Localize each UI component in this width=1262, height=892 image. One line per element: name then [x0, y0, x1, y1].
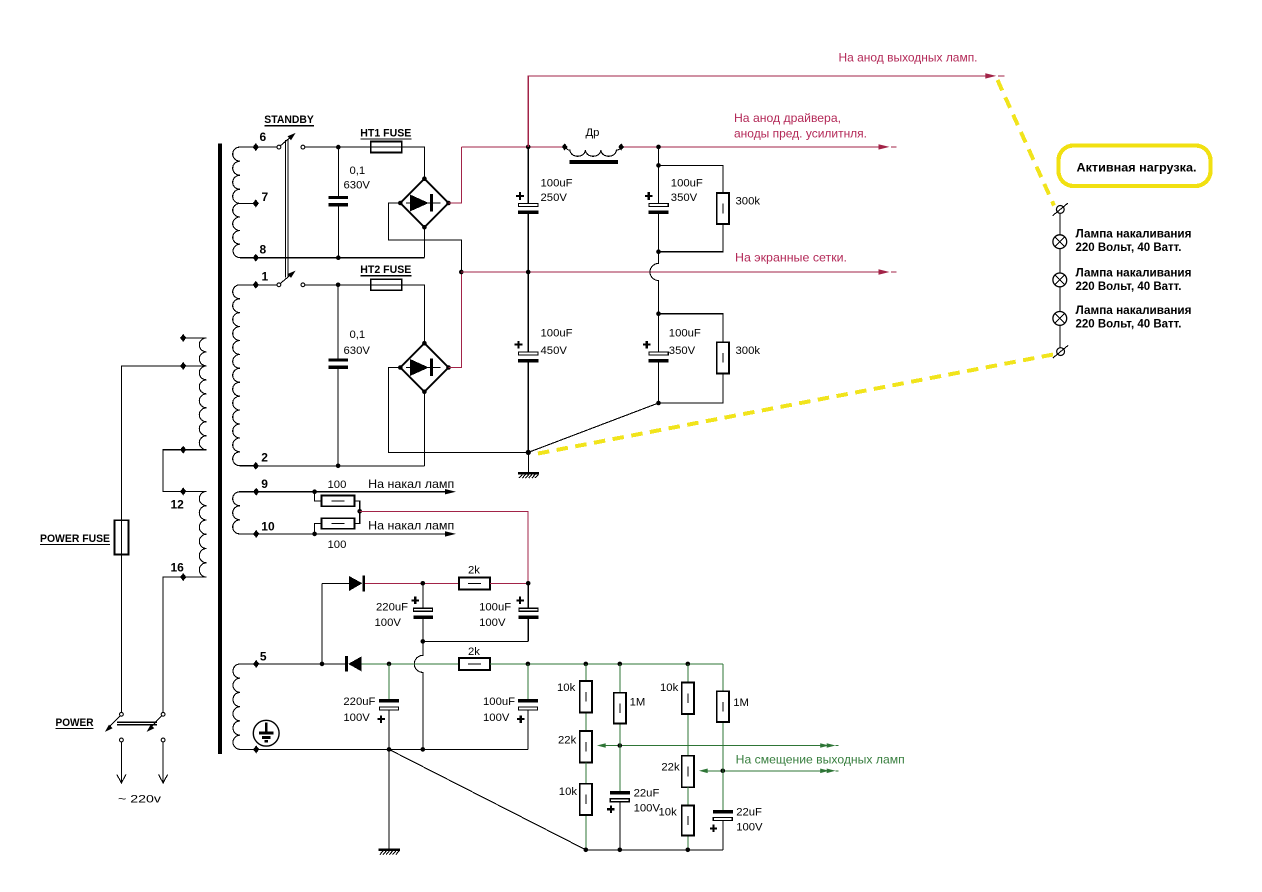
node: tap 7 — [253, 199, 259, 207]
capacitor C1 0,1 630V plates — [329, 196, 349, 207]
arrow green: bias output 1 (double) — [820, 743, 838, 748]
node: rail junction minus riser — [421, 747, 426, 752]
svg-text:На смещение выходных ламп: На смещение выходных ламп — [736, 752, 905, 766]
wire: HT2 fuse to bridge 2 input — [402, 285, 425, 343]
label C7 100V — [375, 617, 402, 629]
capacitor C6 100uF 350V plates — [649, 352, 669, 362]
bridge rectifier B2 diamond — [400, 343, 448, 392]
wire red: heater junction to bias rail — [360, 511, 528, 583]
node: bridge B2 bottom vertex — [422, 390, 427, 395]
resistor R7 10k body — [580, 681, 592, 712]
label R9 10k — [559, 786, 578, 798]
label R11 10k — [660, 682, 679, 694]
label: na anod vyhodnych lamp — [839, 51, 978, 65]
svg-text:Др: Др — [586, 127, 600, 139]
node: junction 220uF-1 top — [421, 581, 426, 586]
node: tap 9 — [253, 488, 259, 496]
label C5 450V — [541, 345, 568, 357]
yellow dashed link 1 — [998, 80, 1055, 206]
ground symbol 1 — [518, 452, 539, 478]
label ~220v — [118, 794, 161, 806]
primary winding P2 (taps 12/16) — [183, 491, 206, 577]
svg-text:100uF: 100uF — [541, 178, 573, 190]
node: tap 8 — [253, 254, 259, 262]
label H2 line 1 — [1076, 265, 1192, 279]
arrow: heater line 10 — [445, 531, 456, 536]
svg-text:630V: 630V — [344, 179, 371, 191]
label: aktivnaya nagruzka — [1077, 161, 1197, 175]
node: bridge B2 left vertex — [398, 365, 403, 370]
svg-text:220uF: 220uF — [343, 696, 375, 708]
wire green: wiper line 2 — [707, 770, 827, 772]
capacitor C11 22uF 100V plates (reversed) — [610, 791, 630, 802]
heater winding S3 (taps 9/10) — [233, 492, 257, 534]
node: primary top stub tap — [180, 334, 186, 342]
label POWER — [56, 717, 94, 729]
resistor R9 10k leads — [585, 762, 587, 850]
wire: tap6 to standby contact — [256, 146, 277, 148]
C6 plus sign — [643, 341, 651, 349]
node: screen rail / filter1 junction — [526, 270, 531, 275]
svg-text:7: 7 — [262, 190, 269, 204]
svg-text:100uF: 100uF — [541, 328, 573, 340]
node: primary tap (winding 1 bottom) — [180, 446, 186, 454]
callout box: active load — [1059, 146, 1211, 187]
node: choke right terminal — [618, 143, 624, 150]
label: anody pred usilitnlya — [734, 127, 867, 141]
label C8 100V — [479, 617, 506, 629]
capacitor C10 100uF 100V plates (reversed) — [518, 699, 538, 710]
wire red: choke to driver anode arrow — [624, 146, 881, 148]
resistor R11 10k body — [682, 683, 694, 714]
heater winding S4 (tap 5) — [233, 664, 256, 750]
label 2 — [261, 451, 268, 465]
svg-text:На накал ламп: На накал ламп — [368, 519, 454, 533]
svg-text:Лампа накаливания: Лампа накаливания — [1076, 265, 1192, 279]
fuse HT2 — [371, 279, 402, 290]
wire: jumper between primary sections — [163, 450, 183, 492]
svg-text:На анод выходных ламп.: На анод выходных ламп. — [839, 51, 978, 65]
wire: tap9 heater line — [256, 491, 445, 493]
label C5 100uF — [541, 328, 573, 340]
switch: STANDBY pole 2 — [277, 271, 305, 287]
svg-text:5: 5 — [260, 650, 267, 664]
C7 plus sign — [412, 597, 419, 604]
label C10 100V — [483, 712, 510, 724]
capacitor C8 100uF 100V wires — [527, 583, 529, 641]
capacitor C9 220uF 100V plates (reversed) — [379, 699, 399, 710]
potentiometer R8 22k body — [580, 731, 592, 762]
wire red: 2k to junction — [490, 582, 528, 584]
resistor R2 300k body — [717, 342, 729, 373]
lamp H1 220V 40W — [1053, 235, 1067, 249]
svg-text:8: 8 — [260, 243, 267, 257]
wire: divider bottom rail — [586, 849, 723, 851]
primary winding P1 (taps 337/366/449) — [183, 338, 206, 450]
node: tap 2 — [253, 462, 259, 470]
node: screen rail left junction — [459, 270, 464, 275]
label C3 100uF — [541, 178, 573, 190]
label H3 line 1 — [1076, 303, 1192, 317]
resistor R4 100 body — [322, 518, 355, 529]
resistor R13 10k leads — [687, 787, 689, 850]
node: minus rail junction — [421, 639, 426, 644]
svg-text:0,1: 0,1 — [350, 165, 366, 177]
node: bridge B1 left vertex — [398, 201, 403, 206]
svg-text:450V: 450V — [541, 345, 568, 357]
svg-text:100uF: 100uF — [669, 328, 701, 340]
capacitor C3 100uF 250V wires — [527, 147, 529, 272]
svg-text:220uF: 220uF — [376, 601, 408, 613]
label R2 300k — [736, 345, 761, 357]
label 16 — [171, 561, 185, 575]
transformer core — [218, 144, 222, 755]
label: na anod draivera — [734, 111, 841, 125]
svg-text:16: 16 — [171, 561, 185, 575]
resistor R4 100 leads — [315, 511, 360, 534]
node: HT rail / filter 2 junction — [656, 145, 661, 150]
capacitor C7 220uF 100V wires — [422, 583, 424, 641]
wire red: bridge B2 plus up to screen rail — [449, 272, 462, 368]
resistor R10 1M body — [614, 693, 626, 724]
svg-text:2: 2 — [261, 451, 268, 465]
label R14 1M — [733, 697, 749, 709]
svg-text:100uF: 100uF — [483, 696, 515, 708]
wire: diagonal rail to divider bottom — [389, 749, 586, 849]
C11 lower wire — [619, 802, 621, 850]
wire: tap1 to standby contact 2 — [256, 284, 277, 286]
label C12 22uF — [736, 807, 762, 819]
node: tap 10 — [253, 530, 259, 538]
chassis earth symbol (circle) — [253, 720, 279, 746]
label: na nakal lamp (top) — [368, 477, 454, 491]
wire red: D1 cathode to 2k — [365, 582, 459, 584]
node: string2 top junction — [656, 163, 661, 168]
capacitor C1 0,1 630V wire — [337, 147, 339, 258]
wire green: wiper line 1 — [605, 745, 827, 747]
label C8 100uF — [479, 601, 511, 613]
node: wiper2 / 1M-2 junction — [721, 769, 726, 774]
svg-text:250V: 250V — [541, 192, 568, 204]
label R8 22k — [558, 735, 577, 747]
svg-text:10k: 10k — [659, 807, 678, 819]
node: bottom rail col1 — [584, 848, 589, 853]
node: tap 6 — [253, 143, 259, 151]
label H3 line 2 — [1076, 317, 1182, 331]
node: junction C1 top — [336, 145, 341, 150]
label C9 220uF — [343, 696, 375, 708]
label H1 line 2 — [1076, 240, 1182, 254]
svg-text:350V: 350V — [671, 192, 698, 204]
svg-text:220 Вольт, 40 Ватт.: 220 Вольт, 40 Ватт. — [1076, 240, 1182, 254]
node: rail junction C9 — [387, 747, 392, 752]
switch: POWER pole 1 — [105, 712, 123, 732]
capacitor C2 0,1 630V plates — [328, 358, 348, 369]
node: tap 16 — [180, 573, 186, 581]
capacitor C9 220uF 100V wires — [388, 664, 390, 750]
svg-text:аноды пред. усилитнля.: аноды пред. усилитнля. — [734, 127, 867, 141]
node: bridge B2 right vertex — [446, 365, 451, 370]
arrow red: to driver anode — [879, 144, 897, 149]
label R5 2k — [468, 565, 480, 577]
svg-text:На накал ламп: На накал ламп — [368, 477, 454, 491]
svg-text:100: 100 — [328, 539, 347, 551]
lamp H3 220V 40W — [1053, 312, 1067, 326]
svg-text:100uF: 100uF — [671, 178, 703, 190]
label 1 — [262, 270, 269, 284]
resistor R5 2k body — [459, 577, 490, 589]
label R7 10k — [557, 682, 576, 694]
node: junction R3 left — [312, 489, 317, 494]
svg-text:POWER: POWER — [56, 717, 94, 729]
label C6 100uF — [669, 328, 701, 340]
capacitor C6 100uF 350V wires (string 2 lower) — [658, 314, 660, 403]
node: bottom rail col3 — [686, 848, 691, 853]
svg-text:22uF: 22uF — [634, 788, 660, 800]
node: tap 5 — [253, 660, 259, 668]
label 630V (C2) — [344, 345, 371, 357]
diode D1 (bias positive) — [349, 576, 365, 592]
wire: tap16 down to switch — [163, 577, 183, 712]
resistor R2 300k leads — [659, 314, 723, 403]
svg-text:10: 10 — [261, 520, 275, 534]
choke core bar — [569, 160, 618, 164]
wire: lamp2 to lamp3 — [1059, 287, 1061, 312]
lamp H2 220V 40W — [1053, 273, 1067, 287]
label R4 100 — [328, 539, 347, 551]
resistor R1 300k leads — [659, 165, 723, 251]
svg-text:На анод драйвера,: На анод драйвера, — [734, 111, 841, 125]
label 12 — [171, 498, 185, 512]
wire: bridge B2 minus to ground — [389, 368, 529, 453]
svg-text:100V: 100V — [343, 712, 370, 724]
fuse HT1 — [371, 142, 402, 153]
node: tap 1 — [253, 281, 259, 289]
svg-text:100V: 100V — [479, 617, 506, 629]
svg-text:1M: 1M — [630, 696, 646, 708]
node: bridge B1 right vertex — [446, 201, 451, 206]
node: bridge B1 bottom vertex — [422, 225, 427, 230]
switch: STANDBY mechanical link — [286, 140, 288, 277]
label H2 line 2 — [1076, 279, 1182, 293]
svg-text:350V: 350V — [669, 345, 696, 357]
wire: lamp1 to lamp2 — [1059, 249, 1061, 273]
resistor R14 1M leads — [722, 664, 724, 810]
wire green: D2 to 2k — [362, 663, 459, 665]
label Dr — [586, 127, 600, 139]
label C11 22uF — [634, 788, 660, 800]
svg-text:12: 12 — [171, 498, 185, 512]
secondary HT winding 1 (taps 6/7/8) — [233, 147, 256, 258]
diode D2 (bias negative) — [345, 656, 362, 672]
resistor R13 10k body — [682, 806, 694, 836]
wire red: riser to anode output line — [528, 76, 992, 147]
label C6 350V — [669, 345, 696, 357]
resistor R10 1M leads — [619, 664, 621, 791]
capacitor C3 100uF 250V plates — [518, 203, 538, 213]
node: D1 anode riser junction — [320, 662, 325, 667]
svg-text:22k: 22k — [661, 761, 680, 773]
arrow red: to output tube anodes — [985, 73, 1004, 78]
wire: primary tap to power fuse — [121, 366, 183, 520]
label R13 10k — [659, 807, 678, 819]
svg-text:10k: 10k — [660, 682, 679, 694]
node: HT1 rail / C3 junction — [526, 145, 531, 150]
wire red: HT1 rail y=147 — [462, 146, 566, 148]
wire green: negative bias rail — [490, 663, 723, 665]
C10 plus sign — [517, 715, 524, 722]
resistor R9 10k body — [580, 784, 592, 815]
capacitor C7 220uF 100V plates — [413, 608, 433, 619]
node: heater junction to bias — [357, 509, 362, 514]
mains input terminal 2 — [159, 738, 168, 783]
svg-text:HT2 FUSE: HT2 FUSE — [360, 264, 411, 276]
label C3 250V — [541, 192, 568, 204]
node: ground junction — [526, 450, 531, 455]
C12 plus sign — [710, 825, 717, 832]
bridge rectifier B1 diamond — [400, 179, 448, 228]
resistor R14 1M body — [717, 691, 729, 722]
node: bottom rail col2 — [618, 848, 623, 853]
wire: lamp3 to bottom terminal — [1059, 325, 1061, 347]
label 9 — [261, 477, 268, 491]
wire: terminal to lamp 1 — [1059, 213, 1061, 235]
svg-text:220 Вольт, 40 Ватт.: 220 Вольт, 40 Ватт. — [1076, 279, 1182, 293]
label H1 line 1 — [1076, 226, 1192, 240]
label POWER FUSE — [40, 533, 110, 545]
terminal: load top — [1053, 203, 1068, 216]
label C4 350V — [671, 192, 698, 204]
C3 plus sign — [516, 192, 524, 200]
wire: bias top section minus rail — [423, 640, 528, 642]
node: wiper1 / 1M junction — [618, 743, 623, 748]
svg-text:300k: 300k — [736, 195, 761, 207]
C8 plus sign — [516, 597, 523, 604]
svg-text:На экранные сетки.: На экранные сетки. — [735, 251, 847, 265]
capacitor C5 100uF 450V wires — [527, 272, 529, 452]
svg-text:100V: 100V — [375, 617, 402, 629]
node: green rail junction col1 — [584, 662, 589, 667]
capacitor C8 100uF 100V plates — [519, 608, 539, 619]
label C11 100V — [634, 802, 661, 814]
bridge B2 inner diode — [406, 359, 441, 376]
label: na ekrannye setki — [735, 251, 847, 265]
wire: diagonal string2 to ground — [528, 403, 658, 452]
node: junction 100uF-2 top — [526, 662, 531, 667]
wire: tap8 row to bridge B1 bottom — [256, 227, 425, 257]
terminal: load bottom — [1053, 345, 1068, 358]
capacitor C12 22uF 100V plates (reversed) — [713, 810, 733, 821]
svg-text:2k: 2k — [468, 565, 480, 577]
svg-text:POWER FUSE: POWER FUSE — [40, 533, 110, 545]
node: string2 mid junction — [656, 249, 661, 254]
resistor R6 2k body — [459, 658, 490, 670]
capacitor C4 100uF 350V plates — [649, 203, 669, 213]
svg-text:Лампа накаливания: Лампа накаливания — [1076, 303, 1192, 317]
node: tap 12 — [180, 487, 186, 495]
resistor R7 10k leads — [585, 664, 587, 731]
resistor R3 100 body — [322, 496, 355, 507]
mains input terminal 1 — [117, 738, 126, 783]
wire: standby to HT1 fuse — [305, 146, 371, 148]
label R12 22k — [661, 761, 680, 773]
switch: POWER mechanical link — [117, 722, 157, 725]
label HT2 FUSE — [360, 264, 411, 276]
svg-text:1M: 1M — [733, 697, 749, 709]
svg-text:300k: 300k — [736, 345, 761, 357]
node: green rail junction col2 — [618, 662, 623, 667]
label R6 2k — [468, 646, 480, 658]
capacitor C4 100uF 350V wires (string 2 upper) — [658, 147, 660, 264]
svg-text:9: 9 — [261, 477, 268, 491]
label 8 — [260, 243, 267, 257]
node: primary tap to fuse — [180, 362, 186, 370]
label 10 — [261, 520, 275, 534]
resistor R3 100 leads — [315, 492, 360, 512]
wire: tap5 to diode D2 — [256, 663, 345, 665]
wire: power fuse to switch — [120, 554, 122, 712]
svg-text:10k: 10k — [559, 786, 578, 798]
C12 lower wire — [722, 821, 724, 850]
inductor Dr (choke) — [566, 148, 621, 157]
label 0,1 (C2) — [350, 329, 366, 341]
label 5 — [260, 650, 267, 664]
label HT1 FUSE — [360, 128, 411, 140]
wire red: bridge B1 plus up to HT rail — [449, 147, 462, 203]
label STANDBY — [264, 114, 314, 126]
node: green rail junction col3 — [686, 662, 691, 667]
wire hop: minus riser over green rail — [414, 641, 423, 749]
label C4 100uF — [671, 178, 703, 190]
node: bridge B1 top vertex — [422, 176, 427, 181]
capacitor C5 100uF 450V plates — [518, 352, 538, 362]
node: winding S4 bottom tap — [253, 745, 259, 753]
node: string2 lower top junction — [656, 311, 661, 316]
svg-text:100V: 100V — [483, 712, 510, 724]
C11 plus sign — [607, 806, 614, 813]
node: string2 bottom junction — [656, 401, 661, 406]
label 6 — [260, 130, 267, 144]
fuse: POWER FUSE — [115, 520, 129, 554]
svg-text:Активная нагрузка.: Активная нагрузка. — [1077, 161, 1197, 175]
label C7 220uF — [376, 601, 408, 613]
svg-text:22k: 22k — [558, 735, 577, 747]
svg-text:1: 1 — [262, 270, 269, 284]
svg-text:~ 220v: ~ 220v — [118, 794, 161, 806]
label C10 100uF — [483, 696, 515, 708]
svg-text:10k: 10k — [557, 682, 576, 694]
C4 plus sign — [645, 192, 653, 200]
wire red: screen grid rail y=272 — [461, 271, 881, 273]
switch: POWER pole 2 — [147, 712, 165, 732]
capacitor C2 0,1 630V wire — [337, 285, 339, 466]
wire: HT1 fuse to bridge 1 input — [402, 147, 425, 178]
arrow red: to screen grids — [879, 269, 897, 274]
svg-text:100V: 100V — [634, 802, 661, 814]
svg-text:100V: 100V — [736, 821, 763, 833]
node: bridge B2 top vertex — [422, 341, 427, 346]
svg-text:100uF: 100uF — [479, 601, 511, 613]
wire: standby2 to HT2 fuse — [305, 284, 371, 286]
label C12 100V — [736, 821, 763, 833]
wire: bridge B1 minus path — [389, 203, 462, 272]
svg-text:220 Вольт, 40 Ватт.: 220 Вольт, 40 Ватт. — [1076, 317, 1182, 331]
yellow dashed link 2 — [536, 355, 1054, 455]
label C9 100V — [343, 712, 370, 724]
wire: tap10 heater line — [256, 533, 445, 535]
svg-text:630V: 630V — [344, 345, 371, 357]
label R3 100 — [328, 479, 347, 491]
